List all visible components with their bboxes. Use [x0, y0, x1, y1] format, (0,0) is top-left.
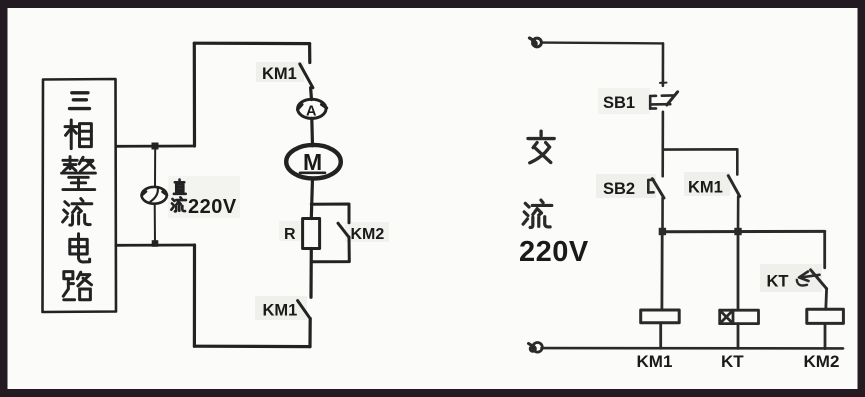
- svg-text:KM1: KM1: [637, 352, 673, 371]
- contact KM1 (main, top): [300, 64, 313, 88]
- svg-text:SB2: SB2: [603, 180, 635, 198]
- label 电: [70, 234, 90, 262]
- wire KT contact-to-KM2 coil: [824, 289, 828, 310]
- wire loop bottom horizontal: [194, 345, 310, 349]
- wire SB2-to-bus: [661, 198, 664, 232]
- wire R-to-KM1 bottom contact: [309, 249, 312, 298]
- wire contact-to-ammeter: [309, 88, 313, 100]
- label 路: [63, 272, 91, 300]
- wire ammeter-to-motor: [310, 118, 314, 145]
- wire bus-to-KT contact: [823, 231, 826, 267]
- wire box-to-loop bottom: [116, 244, 195, 247]
- wire KM2 coil-to-bottom: [824, 323, 827, 348]
- wire KM2 branch bottom: [311, 237, 349, 262]
- wire KT coil-to-bottom: [737, 324, 740, 349]
- wire KM1 coil-to-bottom: [659, 323, 662, 348]
- svg-text:220V: 220V: [188, 196, 237, 218]
- svg-text:KM2: KM2: [804, 352, 840, 371]
- coil KM2: [807, 309, 844, 323]
- voltmeter PV 直流220V: [142, 187, 168, 204]
- motor M1: [286, 145, 341, 179]
- terminal N (bottom): [529, 343, 543, 353]
- label 整: [62, 157, 96, 190]
- LEFT-CIRCUIT: [43, 43, 385, 346]
- wire loop top-left vertical: [193, 43, 196, 146]
- svg-text:KM1: KM1: [262, 65, 297, 83]
- svg-text:SB1: SB1: [603, 94, 635, 112]
- wire loop bottom-left vertical: [193, 245, 196, 346]
- contact KT (delayed close): [797, 270, 827, 289]
- ammeter PA: [298, 99, 327, 118]
- contact KM1 (aux, self-hold): [728, 176, 739, 197]
- wire branch to KM1 aux: [663, 149, 738, 174]
- svg-text:220V: 220V: [519, 236, 589, 268]
- svg-text:KT: KT: [721, 352, 744, 371]
- svg-text:KM1: KM1: [263, 302, 298, 320]
- contact KM2 (shorting): [338, 223, 349, 237]
- wire bottom feeder: [542, 347, 844, 350]
- svg-text:KM2: KM2: [351, 226, 385, 243]
- node bottom voltmeter junction: [152, 240, 159, 247]
- svg-text:R: R: [284, 226, 296, 243]
- contact KM1 (main, bottom): [298, 301, 311, 319]
- label 流 (dc): [171, 197, 186, 211]
- wire bus-to-KM1 coil: [661, 232, 664, 310]
- label 交: [528, 131, 554, 163]
- wire middle bus: [663, 230, 825, 233]
- node bus-SB2 junction: [659, 228, 666, 235]
- wire loop top horizontal: [194, 42, 309, 46]
- node top voltmeter junction: [152, 143, 159, 150]
- wire box-to-loop top: [116, 145, 195, 148]
- label 直: [174, 180, 186, 194]
- coil KT (time relay): [720, 310, 759, 323]
- wire into KM1 top contact: [308, 44, 311, 63]
- wire voltmeter branch: [154, 146, 156, 187]
- label 相: [65, 120, 91, 149]
- wire top feeder: [542, 41, 663, 44]
- wire down to SB1: [662, 43, 665, 85]
- node bus-KM1 junction: [734, 228, 741, 235]
- coil KM1: [641, 310, 680, 323]
- wire KM2 branch top: [311, 204, 349, 223]
- svg-text:M: M: [303, 149, 322, 175]
- wire SB1-to-SB2: [661, 112, 664, 176]
- wire motor-to-R: [311, 179, 312, 219]
- pushbutton SB2 (NO start): [648, 179, 664, 198]
- terminal L (top): [530, 38, 542, 47]
- svg-text:KT: KT: [767, 273, 789, 291]
- wire loop bottom vertical right: [308, 319, 311, 347]
- wire bus-to-KT coil: [737, 232, 740, 310]
- resistor R1: [303, 219, 320, 249]
- label 流 (ac): [523, 200, 552, 227]
- RIGHT-CIRCUIT: [519, 38, 843, 371]
- wire KM1aux-to-bus: [737, 196, 740, 231]
- label 流: [63, 199, 92, 226]
- label 三: [70, 93, 90, 109]
- pushbutton SB1 (NC stop): [650, 92, 677, 109]
- svg-text:KM1: KM1: [688, 179, 723, 197]
- rectifier box U1 三相整流电路: [43, 79, 117, 312]
